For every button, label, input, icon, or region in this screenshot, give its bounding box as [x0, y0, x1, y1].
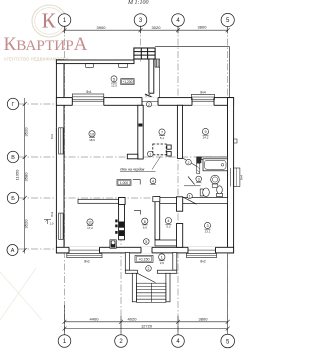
svg-text:Г: Г	[12, 102, 15, 108]
P4 top hook	[119, 198, 126, 205]
room label bath3	[196, 176, 202, 182]
east exterior wall	[228, 98, 234, 253]
room label corridor low	[144, 239, 150, 245]
P4 vent chunks	[119, 222, 125, 228]
svg-text:8ч2: 8ч2	[200, 259, 205, 263]
svg-text:6: 6	[144, 220, 146, 224]
west exterior wall	[56, 60, 64, 253]
window G1	[72, 94, 104, 106]
watermark logo oval	[32, 5, 67, 37]
room label corridor	[142, 218, 148, 229]
svg-text:17,2: 17,2	[87, 226, 93, 230]
axis line B horizontal	[19, 197, 235, 199]
svg-text:2: 2	[148, 103, 150, 107]
terrace steps	[155, 59, 160, 98]
room label bath2	[186, 159, 192, 165]
partition P2 on axis 3	[138, 105, 143, 159]
axis line A horizontal	[19, 248, 235, 250]
svg-text:6,6: 6,6	[143, 225, 148, 229]
svg-text:7: 7	[161, 131, 163, 135]
svg-text:3020: 3020	[152, 25, 162, 30]
door mark corridor 1	[134, 210, 141, 214]
room label hatch1	[148, 151, 154, 157]
svg-text:8ч3: 8ч3	[50, 212, 54, 217]
axis line 3 vertical	[140, 26, 142, 62]
svg-text:11: 11	[88, 221, 92, 225]
room label hall above corridor	[150, 178, 156, 185]
toilet 2	[217, 186, 223, 197]
P4 vent dots	[115, 220, 117, 223]
svg-text:4: 4	[152, 179, 154, 183]
svg-text:3,6: 3,6	[160, 261, 165, 265]
left dimension lines	[23, 98, 27, 254]
partition P3 on axis 4	[177, 105, 182, 158]
svg-text:9: 9	[204, 130, 206, 134]
svg-text:12720: 12720	[141, 323, 153, 328]
top dimension line	[63, 26, 230, 34]
tambour south wall left	[125, 270, 137, 273]
top axis circle 4	[172, 14, 185, 27]
svg-text:КВАРТИРА: КВАРТИРА	[4, 34, 88, 55]
room label wing	[111, 76, 117, 88]
wash basin	[211, 175, 220, 187]
wall B right segment	[160, 198, 228, 204]
attic hatch dashed	[153, 144, 166, 155]
svg-text:13,1: 13,1	[205, 230, 211, 234]
svg-text:2: 2	[148, 267, 150, 271]
svg-text:5: 5	[145, 240, 147, 244]
porch left wall	[132, 273, 136, 302]
left dim texts rotated	[15, 127, 29, 229]
top dim texts	[97, 25, 208, 31]
svg-text:8ч4: 8ч4	[240, 175, 244, 180]
wing east wall	[149, 59, 154, 93]
bottom axis circle 4	[172, 335, 185, 348]
east wall tick	[234, 139, 237, 143]
room label midbottom	[165, 218, 171, 229]
room labels	[87, 76, 211, 271]
svg-text:3520: 3520	[24, 127, 29, 137]
svg-text:В: В	[11, 155, 15, 161]
left axis circle B	[7, 192, 18, 203]
bottom dim texts	[90, 316, 209, 328]
WC divider line	[184, 185, 201, 187]
top axis circle 1	[58, 14, 71, 27]
north wing wall	[56, 60, 134, 64]
window A1	[67, 247, 102, 258]
top axis circle 5	[221, 13, 234, 26]
attic hatch label arrow	[152, 157, 161, 170]
axis line G horizontal	[19, 103, 235, 105]
towel rail	[197, 163, 200, 173]
partition P4 on axis 2	[119, 198, 125, 240]
P5 top hook	[153, 197, 160, 202]
tambour right wall	[173, 253, 177, 271]
bathroom door leaf	[183, 158, 197, 167]
svg-text:М 1:100: М 1:100	[127, 0, 149, 6]
window A2	[187, 247, 217, 258]
door A to tambour	[141, 247, 152, 254]
bottom axis circle 5	[221, 334, 235, 348]
terrace outline	[155, 47, 229, 98]
svg-text:11050: 11050	[15, 169, 20, 181]
axis line V horizontal	[19, 156, 235, 158]
room label topright	[202, 128, 208, 139]
svg-text:8ч5: 8ч5	[145, 94, 150, 98]
room label bottomleft	[87, 219, 93, 230]
svg-text:Б: Б	[11, 196, 15, 202]
svg-text:1: 1	[189, 195, 191, 199]
svg-text:1: 1	[149, 153, 151, 157]
bottom dimension lines	[63, 254, 230, 335]
wall V stub	[127, 154, 138, 159]
east window	[227, 168, 240, 187]
room label living	[89, 131, 95, 142]
svg-text:3800: 3800	[199, 316, 209, 321]
window G3	[192, 94, 215, 105]
wing sill 2	[119, 64, 128, 68]
svg-text:Люк на чердак: Люк на чердак	[119, 168, 145, 172]
svg-text:4020: 4020	[128, 316, 138, 321]
bottom axis circle 2	[115, 335, 128, 348]
svg-text:К: К	[42, 8, 57, 32]
west window 2	[56, 213, 65, 239]
svg-text:2: 2	[188, 161, 190, 165]
svg-text:14,2: 14,2	[203, 136, 209, 140]
top axis circle 3	[134, 14, 147, 27]
P5 bottom turn wall	[155, 240, 177, 246]
svg-text:3900: 3900	[97, 25, 107, 30]
svg-text:18,6: 18,6	[89, 138, 95, 142]
door mark corridor 2	[133, 180, 140, 185]
stove	[110, 240, 116, 249]
room label hall7	[159, 129, 165, 140]
wing sill 1	[86, 64, 94, 68]
svg-text:1,0: 1,0	[50, 222, 54, 226]
left axis circle G	[7, 98, 18, 109]
P2 vent dot	[138, 124, 142, 127]
room label terrace door	[146, 102, 151, 107]
axis line 2 vertical	[120, 197, 122, 332]
chimney block	[134, 48, 155, 59]
svg-text:5,2: 5,2	[166, 225, 171, 229]
svg-text:3: 3	[206, 224, 208, 228]
room label on B wall	[187, 193, 192, 198]
wing door leaf	[145, 94, 154, 98]
tambour door leaf	[137, 273, 155, 282]
room label tambour	[159, 254, 165, 265]
svg-text:А: А	[11, 248, 15, 254]
wall B left segment	[78, 199, 119, 203]
partition P7 on axis 4	[177, 197, 183, 211]
WC door leaf	[188, 177, 195, 185]
svg-text:1: 1	[161, 256, 163, 260]
P7 door leaf	[184, 197, 197, 204]
west window 1	[56, 128, 65, 154]
bottom axis circle 1	[58, 335, 71, 348]
level mark 1et	[44, 220, 51, 225]
svg-text:5: 5	[113, 77, 115, 81]
svg-text:1,000: 1,000	[120, 181, 128, 185]
tambour south wall right	[157, 270, 177, 273]
P3 vent dots	[167, 145, 171, 149]
svg-text:+0,150: +0,150	[138, 258, 149, 262]
bathroom pier	[196, 157, 201, 164]
watermark faint arcs bottom-left	[0, 268, 42, 320]
south wall axis A	[56, 247, 233, 253]
svg-text:3520: 3520	[24, 219, 29, 229]
porch steps	[136, 283, 166, 302]
partition P5	[155, 197, 160, 240]
left axis circle A	[7, 245, 18, 256]
svg-text:4: 4	[167, 219, 169, 223]
room label bottomright	[204, 222, 210, 233]
porch right wall	[166, 273, 170, 302]
svg-text:10: 10	[90, 132, 94, 136]
axis line 1 vertical	[64, 26, 66, 332]
svg-text:4400: 4400	[90, 316, 100, 321]
level box +0,150	[135, 255, 153, 262]
svg-text:3800: 3800	[198, 25, 208, 30]
bathroom north wall	[201, 157, 227, 160]
bathtub	[203, 159, 228, 171]
tambour left wall	[125, 253, 129, 271]
level box +1,200 wing	[121, 79, 134, 85]
svg-text:3580: 3580	[24, 172, 29, 182]
svg-text:+1,200: +1,200	[122, 80, 132, 84]
svg-text:3: 3	[198, 178, 200, 182]
room label tambour door	[146, 266, 152, 272]
svg-text:8ч3: 8ч3	[50, 134, 54, 139]
axis line 4 vertical	[177, 26, 179, 332]
left axis circle V	[7, 151, 18, 162]
svg-text:8ч4: 8ч4	[200, 90, 205, 94]
toilet 1	[200, 188, 209, 197]
svg-text:8ч1: 8ч1	[86, 90, 91, 94]
window G2	[142, 97, 158, 106]
svg-text:12,5: 12,5	[111, 83, 117, 87]
axis line 5 vertical	[227, 26, 229, 332]
level box 1,000	[117, 180, 131, 186]
north wall axis G	[56, 98, 233, 106]
svg-text:8ч2: 8ч2	[84, 260, 89, 264]
svg-text:5,1: 5,1	[160, 136, 165, 140]
